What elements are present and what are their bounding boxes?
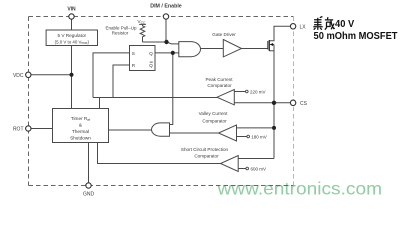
AND gate U3 (mirrored) bbox=[152, 123, 170, 136]
pin GND bbox=[86, 183, 91, 188]
pin CS bbox=[290, 100, 295, 105]
buffer U5: gate driver bbox=[223, 40, 241, 57]
wire resistor bottom to AND U2 input bbox=[143, 42, 179, 44]
svg-text:Gate Driver: Gate Driver bbox=[212, 32, 236, 37]
svg-text:ROT: ROT bbox=[13, 127, 24, 133]
wire peak comparator output bbox=[93, 97, 217, 99]
wire timer to GND bbox=[88, 143, 90, 183]
svg-text:Peak Current: Peak Current bbox=[205, 77, 233, 82]
svg-text:VCC: VCC bbox=[138, 19, 147, 25]
IC boundary dashed border right bbox=[293, 17, 295, 186]
svg-text:Comparator: Comparator bbox=[207, 83, 232, 88]
wire DIM/Enable down bbox=[165, 19, 167, 42]
wire to timer top bbox=[99, 98, 101, 109]
wire latch Q to AND U2 bbox=[155, 52, 179, 54]
svg-text:www.entronics.com: www.entronics.com bbox=[216, 179, 382, 199]
svg-text:S: S bbox=[132, 51, 135, 56]
pin LX bbox=[290, 24, 295, 29]
svg-text:GND: GND bbox=[83, 192, 95, 198]
wire SCP comparator input from CS bbox=[238, 158, 274, 160]
resistor R1 enable pull-up bbox=[140, 25, 145, 43]
node dot valley input junction bbox=[272, 126, 276, 130]
svg-text:Enable Pull–Up: Enable Pull–Up bbox=[105, 25, 137, 30]
svg-text:Comparator: Comparator bbox=[194, 154, 219, 159]
wire gate driver to MOSFET gate bbox=[242, 48, 268, 50]
ref circle 180mV bbox=[247, 135, 250, 138]
svg-text:LX: LX bbox=[300, 24, 307, 30]
wire valley comparator ref input bbox=[237, 136, 247, 138]
wire ROT pin to timer bbox=[31, 128, 52, 130]
wire CS pin bbox=[235, 102, 291, 104]
comparator U8: short circuit protection comparator bbox=[221, 156, 239, 172]
node dot DIM junction bbox=[164, 40, 168, 44]
wire SCP comparator output to timer bbox=[98, 143, 221, 164]
svg-text:Valley Current: Valley Current bbox=[199, 111, 228, 116]
svg-text:Shutdown: Shutdown bbox=[70, 135, 91, 140]
wire VDC pin bbox=[31, 74, 71, 76]
svg-text:Thermal: Thermal bbox=[72, 129, 89, 134]
svg-text:Q: Q bbox=[149, 63, 153, 68]
wire CS net vertical bbox=[273, 45, 275, 159]
svg-text:R: R bbox=[132, 63, 136, 68]
svg-text:Q: Q bbox=[149, 51, 153, 56]
wire Q node down to AND U3 bbox=[170, 53, 173, 125]
ref circle 220mV bbox=[246, 90, 249, 93]
svg-text:Timer Ref: Timer Ref bbox=[71, 116, 90, 122]
wire 5V regulator to Timer box, VDC net bbox=[71, 46, 73, 109]
svg-text:Resistor: Resistor bbox=[112, 31, 129, 36]
svg-text:VIN: VIN bbox=[67, 7, 76, 13]
node dot VDC/VIN junction bbox=[70, 73, 74, 77]
wire latch R input bbox=[113, 65, 130, 98]
wire valley comparator input from CS bbox=[237, 127, 275, 129]
AND gate U2 bbox=[179, 42, 201, 57]
wire VIN to 5V regulator bbox=[71, 19, 73, 30]
annotation: 集成40 V (integrated 40 V) bbox=[313, 17, 334, 30]
svg-text:Comparator: Comparator bbox=[202, 118, 227, 123]
ref circle 600mV bbox=[246, 167, 249, 170]
wire AND U2 to gate driver bbox=[201, 48, 224, 50]
svg-text:CS: CS bbox=[300, 101, 308, 107]
wire AND U3 output to timer bbox=[109, 129, 152, 131]
svg-text:(5.0 V to 40 Vmax): (5.0 V to 40 Vmax) bbox=[55, 39, 90, 45]
pin VIN bbox=[69, 14, 74, 19]
pin DIM/Enable bbox=[163, 14, 168, 19]
node dot Q junction bbox=[171, 51, 175, 55]
wire MOSFET source stub bbox=[269, 50, 274, 52]
IC boundary dashed border top bbox=[29, 16, 294, 18]
block U9: timer ref and thermal shutdown box bbox=[53, 109, 109, 143]
pin VDC bbox=[26, 72, 31, 77]
transistor Q1: power MOSFET bbox=[267, 41, 269, 50]
comparator U7: valley current comparator bbox=[219, 125, 237, 141]
svg-text:5 V Regulator: 5 V Regulator bbox=[57, 33, 86, 38]
wire MOSFET body stub bbox=[270, 44, 274, 46]
wire latch S input bbox=[93, 53, 130, 98]
wire SCP comparator ref input bbox=[238, 168, 246, 170]
latch U4: SR latch box bbox=[130, 46, 156, 71]
wire peak comparator ref input bbox=[234, 91, 245, 93]
svg-text:180 mV: 180 mV bbox=[251, 134, 267, 139]
svg-text:Short Circuit Protection: Short Circuit Protection bbox=[181, 147, 229, 152]
pin ROT bbox=[26, 126, 31, 131]
wire valley comparator output to AND U3 bbox=[170, 132, 219, 134]
regulator block U1: 5V regulator box bbox=[46, 30, 97, 46]
IC boundary dashed border left bbox=[28, 17, 30, 186]
svg-text:50 mOhm MOSFET: 50 mOhm MOSFET bbox=[314, 31, 398, 42]
IC boundary dashed border bottom bbox=[29, 185, 294, 187]
svg-text:DIM / Enable: DIM / Enable bbox=[150, 4, 182, 10]
wire MOSFET drain to LX bbox=[269, 26, 290, 40]
svg-text:600 mV: 600 mV bbox=[251, 166, 267, 171]
svg-text:40 V: 40 V bbox=[335, 19, 355, 30]
node dot CS junction bbox=[272, 101, 276, 105]
svg-text:VDC: VDC bbox=[13, 73, 24, 79]
svg-text:220 mV: 220 mV bbox=[250, 89, 266, 94]
comparator U6: peak current comparator bbox=[217, 90, 234, 105]
